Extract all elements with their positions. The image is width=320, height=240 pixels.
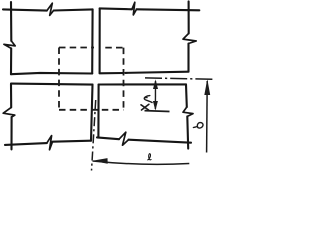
panel bottom-left: top edge [11,84,93,85]
panel bottom-right: bottom edge left part [97,137,119,139]
break mark on bottom edge of bottom-left panel [47,136,53,150]
dimension l: horizontal line [93,161,190,164]
panel bottom-right: left edge [97,85,99,138]
panel bottom-right: bottom edge right part with overshoot [129,140,192,143]
break mark on top edge of top-right panel [132,2,137,15]
dashed hidden panel: bottom edge [59,109,124,111]
panel bottom-left: right edge [91,85,93,141]
panel top-left: right edge [91,9,94,73]
dimension b: vertical line [206,81,209,153]
panel top-left: bottom edge [11,73,92,74]
panel bottom-left: bottom edge left part [5,143,47,145]
panel top-right: right edge upper with overshoot [188,1,190,33]
break mark on right edge of top-right panel [183,33,196,43]
break mark on left edge of top-left panel [4,41,15,49]
panel top-right: right edge lower [187,44,189,72]
dashed hidden panel: left edge [58,48,60,110]
break mark on right edge of bottom-right panel [183,107,193,116]
label l (script ell) [148,154,151,160]
panel top-left: top edge [3,9,47,10]
panel top-right: bottom edge segment B (notch gap at x~124) [100,72,124,74]
panel top-right: bottom edge segment A [125,72,188,73]
dimension x_f: upper arrowhead [153,79,158,89]
panel top-right: top edge right part [137,9,200,10]
panel bottom-right: top edge [99,83,186,85]
panel bottom-right: right edge lower with overshoot [186,116,189,148]
break mark on bottom edge of bottom-right panel [119,132,129,145]
dimension x_f: reference shelf line [145,110,170,113]
break mark on left edge of bottom-left panel [3,107,15,117]
panel bottom-right: right edge upper [185,84,188,107]
panel bottom-left: bottom edge right part [53,141,92,142]
label b (rotated) [193,123,203,129]
panel bottom-left: left edge upper [10,84,12,107]
dashed hidden panel: top edge left part [59,47,94,49]
dimension x_f: lower arrowhead [153,101,158,111]
panel top-left: left edge upper part with overshoot [10,2,12,41]
panel top-left: left edge lower part [10,48,12,74]
panel top-right: top edge [100,7,132,10]
label x_f (rotated) [141,96,152,110]
horizontal dash-dot joint axis [145,78,213,79]
dashed hidden panel: right edge [123,48,125,110]
dimension x_f: vertical line [154,81,156,109]
panel top-left: top edge right part [54,9,93,10]
dimension b: upper arrowhead [204,79,210,95]
vertical dash-dot joint axis [92,100,96,171]
dimension l: left arrowhead [92,158,107,164]
break mark on top edge of top-left panel [47,3,54,15]
dashed hidden panel: top edge right part [105,47,123,49]
panel top-right: left edge [99,8,101,73]
panel bottom-left: left edge lower with overshoot [10,117,12,149]
